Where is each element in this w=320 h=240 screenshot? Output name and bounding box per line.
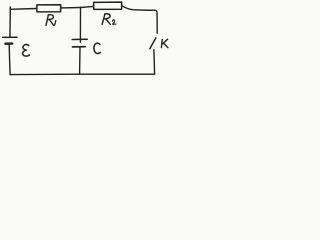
battery E long plate (positive) [3, 36, 17, 38]
wire top-left segment [10, 8, 37, 11]
wire right lower (switch to bottom) [153, 50, 156, 74]
capacitor C top plate [72, 38, 87, 40]
wire left upper (top to battery) [9, 7, 11, 37]
wire bottom [10, 73, 155, 75]
wire left lower (battery to bottom) [8, 45, 11, 75]
wire junction to R2 [81, 6, 94, 7]
wire capacitor branch upper [79, 8, 81, 43]
switch K blade [150, 38, 156, 49]
wire top-right segment [122, 6, 155, 11]
wire right upper (to switch) [155, 10, 157, 33]
capacitor C bottom plate [73, 46, 86, 48]
wire R1 to junction [61, 7, 81, 9]
label R2 [102, 14, 110, 25]
resistor R1 [37, 5, 61, 12]
wire capacitor branch lower [79, 47, 81, 74]
resistor R2 [94, 2, 122, 9]
battery E short thick plate (negative) [5, 42, 12, 45]
label C [94, 43, 100, 53]
label K [161, 39, 168, 47]
label epsilon [23, 44, 30, 56]
label R1 [46, 15, 54, 26]
node junction capacitor tap [80, 7, 82, 9]
